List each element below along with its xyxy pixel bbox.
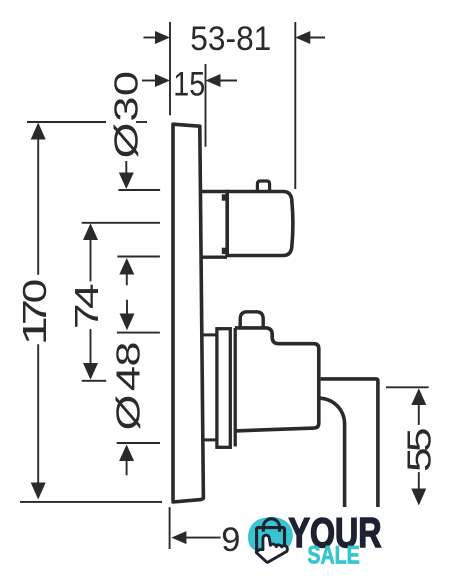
- dim 15 right extension line: [205, 64, 207, 147]
- lower handle body: [235, 328, 319, 431]
- svg-text:8: 8: [110, 341, 147, 366]
- dim 170 bottom extension line: [20, 501, 162, 503]
- dim O30 top extension line: [118, 189, 160, 191]
- dim 55 line with arrows: [411, 388, 426, 405]
- dim 74 bottom extension line: [82, 380, 107, 382]
- dim O30 bottom extension line: [117, 256, 159, 258]
- upper handle body: [227, 192, 293, 256]
- lower handle back face: [234, 328, 237, 447]
- svg-text:3: 3: [108, 96, 145, 121]
- svg-text:Ø: Ø: [107, 123, 145, 159]
- svg-text:7: 7: [67, 303, 105, 329]
- dim 53-81 right arrow: [307, 37, 325, 39]
- svg-text:Ø: Ø: [109, 395, 147, 431]
- logo teal blob: [248, 517, 293, 552]
- dim 74 line with arrows: [83, 223, 98, 240]
- wall plate: [173, 124, 203, 502]
- upper handle back face: [225, 190, 229, 257]
- svg-text:1: 1: [17, 316, 54, 346]
- outlet pipe inner elbow: [319, 398, 345, 507]
- outlet pipe top edge: [321, 379, 378, 507]
- dim bottom extension line: [169, 507, 171, 549]
- svg-text:15: 15: [173, 65, 205, 103]
- dim 170 line with arrows: [31, 123, 46, 140]
- dim O48 bottom arrow pointing up: [119, 445, 134, 462]
- dim O48 top arrow pointing down: [126, 300, 128, 316]
- upper handle top tab: [257, 181, 269, 191]
- dim 55 top extension line: [386, 386, 429, 388]
- dim O48 top extension line: [117, 332, 160, 334]
- dim 53-81 left arrow: [144, 37, 159, 39]
- svg-text:9: 9: [221, 521, 240, 559]
- logo bag handle: [263, 519, 279, 532]
- logo hand: [256, 535, 287, 562]
- dim O30 bottom arrow pointing up: [119, 258, 134, 275]
- dim 15 left arrow: [142, 80, 156, 82]
- dim 53-81 right extension line: [294, 22, 296, 189]
- dim 74 top extension line: [82, 222, 160, 224]
- upper handle back nub bottom: [222, 248, 228, 254]
- lower bottom connector line: [202, 438, 216, 441]
- upper handle stem top line: [201, 190, 227, 193]
- svg-text:0: 0: [108, 71, 145, 96]
- svg-text:5: 5: [401, 447, 439, 472]
- dim 15 right arrow: [217, 80, 237, 82]
- upper handle back nub top: [222, 194, 228, 200]
- upper handle stem bottom line: [201, 256, 227, 259]
- dim O48 bottom extension line: [117, 442, 160, 444]
- dim O30 top arrow pointing down: [125, 161, 127, 175]
- dim bottom arrow pointing left: [183, 537, 221, 539]
- dim 170 top extension line: [27, 121, 106, 123]
- svg-text:4: 4: [110, 366, 147, 391]
- dim 53-81 left extension line: [169, 22, 171, 115]
- svg-text:53-81: 53-81: [190, 20, 271, 58]
- svg-text:SALE: SALE: [307, 542, 359, 570]
- logo shopping bag: [257, 528, 285, 551]
- lower top connector line: [202, 333, 216, 336]
- lower shut-off knob: [240, 312, 263, 327]
- lower flange sleeve: [217, 329, 230, 448]
